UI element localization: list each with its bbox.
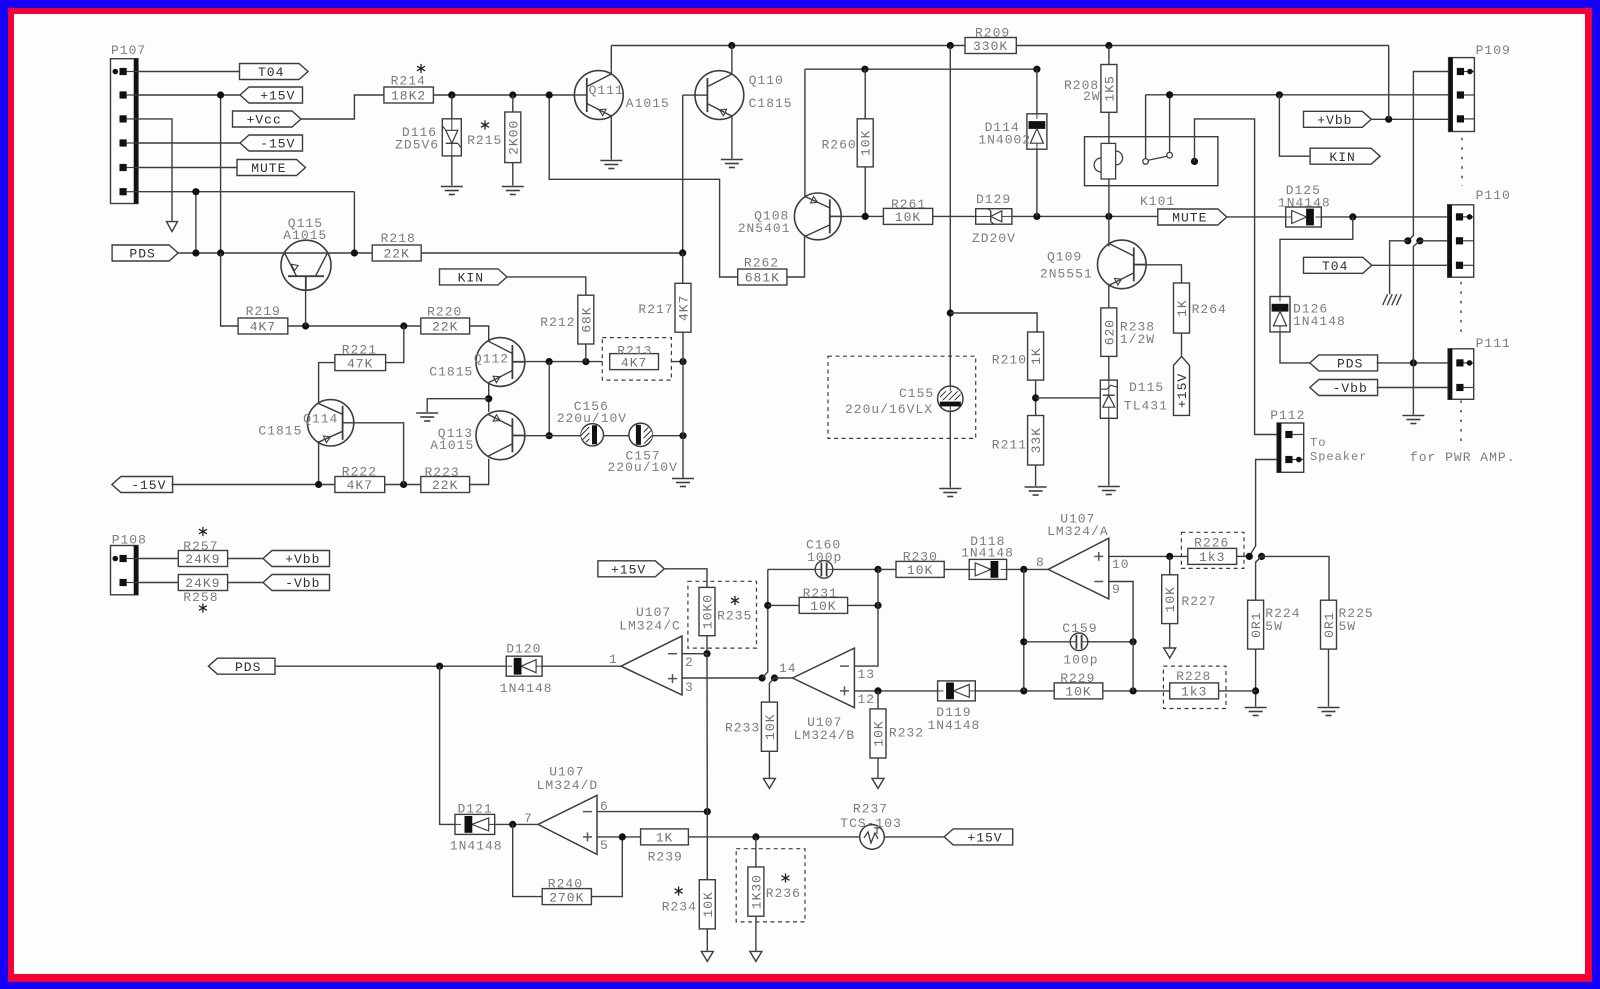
wire R222 to R223 [385,484,421,486]
wire R211 to ground [1035,465,1037,486]
dashed link P111 below [1460,401,1462,449]
capacitor C160 100p [768,568,815,570]
wire C156 to C157 [604,435,629,437]
wire +Vcc flag to R214 [301,95,384,119]
svg-text:+Vbb: +Vbb [285,552,320,567]
wire Q112 base rail y361.6 [512,361,610,363]
svg-text:24K9: 24K9 [185,552,220,567]
dashed box R226 [1181,532,1244,568]
resistor R209 330K [965,38,1016,54]
wire -15V rail to R222 [172,484,335,486]
resistor R220 [421,318,470,334]
flag PDS top-left [112,245,178,261]
node Q114 base drop junction [400,481,407,488]
svg-text:2: 2 [685,655,694,670]
wire R217 to R213 node [682,332,684,361]
wire R225 to ground [1328,649,1330,706]
svg-text:1N4148: 1N4148 [928,718,981,733]
flag +15V mid [598,561,664,577]
svg-text:R228: R228 [1176,669,1211,684]
capacitor C155 220u/16VLX [938,386,963,411]
svg-text:R240: R240 [548,877,583,892]
wire R258 to -Vbb flag [228,582,263,584]
svg-text:+15V: +15V [967,831,1002,846]
opamp U107 LM324/A [1048,538,1109,599]
wire R235 to pin2 node [706,636,708,654]
dashed link P110-P111 [1460,282,1462,335]
svg-text:KIN: KIN [458,271,484,286]
svg-text:68K: 68K [579,306,594,332]
svg-text:R235: R235 [717,609,752,624]
resistor R218 [372,245,421,261]
wire Q111 feedback to R262 [549,95,738,277]
svg-text:R215: R215 [467,133,502,148]
wire thermistor to +15V flag [884,836,944,838]
svg-text:R212: R212 [540,315,575,330]
svg-text:C1815: C1815 [429,365,473,380]
wire PDS branch down to D121 [440,666,455,824]
resistor R260 10K [864,69,866,119]
wire opamp C pin3 rail [682,677,762,679]
node C159 left [1020,638,1027,645]
svg-text:D115: D115 [1129,380,1164,395]
resistor R239 1K [641,829,689,845]
svg-text:TCS-103: TCS-103 [840,816,902,831]
wire R213 right to R217 bottom [659,361,684,363]
wire P107 pin3 down to supply arrow [138,119,172,222]
node R231 left junction [764,602,771,609]
svg-text:P111: P111 [1476,336,1511,351]
svg-text:1N4148: 1N4148 [1293,314,1346,329]
svg-text:220u/10V: 220u/10V [608,460,678,475]
wire R212 bottom [585,344,587,362]
svg-text:P112: P112 [1270,408,1305,423]
svg-text:R217: R217 [638,302,673,317]
svg-text:2K00: 2K00 [506,120,521,155]
flag T04 [240,64,309,80]
wire D118 column [1023,569,1025,691]
svg-text:ZD5V6: ZD5V6 [395,138,439,153]
svg-text:7: 7 [524,811,533,826]
resistor R214 [384,87,434,103]
svg-text:C155: C155 [899,386,934,401]
wire coil to Q109 collector [1108,179,1110,216]
svg-text:D129: D129 [976,192,1011,207]
wire +15V rail down [220,95,222,253]
node pin5 junction [619,833,626,840]
svg-text:14: 14 [779,661,797,676]
wire pin2 node column down [706,654,708,812]
node D114 top [1033,66,1040,73]
dashed box R228 [1163,666,1226,708]
relay rail y94.8 [1146,94,1449,96]
svg-text:1N4148: 1N4148 [961,545,1014,560]
wire P107 pin4 to -15V flag [138,142,240,144]
wire R239 to thermistor [688,836,859,838]
node R220 left junction [400,322,407,329]
svg-text:Q110: Q110 [749,73,784,88]
svg-text:PDS: PDS [235,660,261,675]
diode D125 1N4148 [1286,207,1322,227]
wire T04 to P110 pin3 [1371,264,1447,266]
resistor R262 681K [738,269,787,285]
resistor R217 4K7 [675,283,691,332]
wire R240 to pin5 node [591,837,622,897]
svg-text:Q114: Q114 [303,412,338,427]
svg-text:8: 8 [1036,555,1045,570]
wire P107 pin1 to T04 [138,71,240,73]
wire pin6 right drop to base rail [353,192,355,253]
svg-text:C1815: C1815 [258,424,302,439]
wire R226 to switch node [1237,555,1250,557]
wire D115 to ground [1108,418,1110,485]
wire D125 to P110 pin1 [1321,216,1447,218]
opamp U107 LM324/B [793,648,855,708]
wire jog down to R224 [1256,556,1262,600]
svg-text:R214: R214 [391,74,426,89]
resistor R211 33K [1028,416,1044,466]
svg-text:+15V: +15V [1175,373,1190,408]
wire x683 column to ground [682,362,684,436]
svg-text:R211: R211 [992,438,1027,453]
node Q114 emitter junction [315,481,322,488]
svg-text:Q112: Q112 [474,352,509,367]
dashed box R235 [688,581,757,648]
wire P108 pin2 to R258 [138,582,178,584]
wire Q114 emitter down [318,443,320,485]
flag +Vcc [233,111,302,127]
wire opamp A pin9 feedback [1109,582,1133,691]
wire switch horizontal to chassis [1390,241,1408,294]
wire Q114 base run [343,423,404,485]
svg-text:1N4002: 1N4002 [978,133,1031,148]
svg-text:2N5401: 2N5401 [738,221,791,236]
wire Q108 base to R261 [829,215,883,217]
svg-text:A1015: A1015 [283,228,327,243]
svg-text:+15V: +15V [611,563,646,578]
svg-text:MUTE: MUTE [251,161,286,176]
ground D115 [1098,486,1120,488]
svg-text:R260: R260 [822,138,857,153]
wire PDS node to ground [1412,363,1414,415]
node Q112 base junction [546,358,553,365]
ground R225 [1318,707,1340,709]
svg-text:R222: R222 [342,465,377,480]
flag PDS bottom left [208,658,275,674]
wire pin6 drop to PDS rail [195,192,197,253]
svg-text:A1015: A1015 [430,438,474,453]
flag +Vbb top right [1304,111,1372,127]
svg-text:10K: 10K [895,210,921,225]
node PDS junction [1410,359,1417,366]
flag MUTE right [1158,209,1227,225]
svg-text:D120: D120 [506,642,541,657]
svg-text:1K30: 1K30 [749,874,764,909]
svg-text:5W: 5W [1265,619,1283,634]
arrow R234 [701,951,713,961]
flag +15V vertical [1174,356,1190,415]
svg-text:1k3: 1k3 [1181,685,1207,700]
arrow R236 [750,951,762,961]
node Q113 base junction [546,432,553,439]
wire P109 pin1 switch chain [1408,72,1449,241]
node PDS rail junctions [192,249,199,256]
wire R238 to D115 [1108,356,1110,380]
ground R215 [502,186,524,188]
node C160/R230 junction [874,566,881,573]
node Q110 collector junction [728,42,735,49]
relay NO contact [1191,158,1198,165]
resistor R258 24K9 [178,575,227,591]
node R208 junction [1105,42,1112,49]
svg-text:1/2W: 1/2W [1120,332,1155,347]
node KIN drop [1276,91,1283,98]
resistor R232 10K [877,691,879,709]
resistor R208 1K5 2W [1108,46,1110,65]
svg-text:-15V: -15V [131,478,166,493]
flag T04 right [1304,257,1372,273]
wire R214 to Q111 base [433,94,574,96]
svg-text:12: 12 [858,692,876,707]
transistor Q108 [794,193,841,240]
svg-text:R223: R223 [425,465,460,480]
ground P111 column [1402,415,1424,417]
svg-text:3: 3 [685,680,694,695]
dashed box R236 [736,849,805,922]
svg-text:33K: 33K [1029,427,1044,453]
wire D125 node down to D126 [1280,217,1353,297]
svg-text:R229: R229 [1060,671,1095,686]
top rail y45.5 [611,45,1388,47]
svg-text:R261: R261 [891,197,926,212]
transistor Q110 [695,71,744,120]
wire R228 to R224 bottom [1219,690,1256,692]
connector P108 [111,546,139,595]
transistor Q112 [476,338,525,387]
svg-text:R232: R232 [889,726,924,741]
transistor Q111 [574,71,623,120]
node opamp D pin7 junction [509,821,516,828]
wire KIN flag to R212 [507,277,586,295]
svg-text:LM324/A: LM324/A [1047,524,1109,539]
svg-text:2W: 2W [1083,89,1101,104]
diode D116 zener [451,95,453,119]
wire R220 right to Q112 collector [470,326,489,342]
diode D119 1N4148 [938,681,976,701]
resistor R238 620 [1101,308,1117,357]
resistor R215 2K00 [512,95,514,112]
node R212 bottom junction [582,358,589,365]
node D118 junction [1020,566,1027,573]
resistor R223 [421,477,470,493]
wire R221 left to Q114 collector [319,363,335,403]
svg-text:To: To [1310,436,1326,450]
resistor R236 1K30 [755,837,757,867]
svg-text:10: 10 [1112,557,1130,572]
shunt regulator D115 TL431 [1100,380,1117,418]
svg-text:R209: R209 [975,26,1010,41]
capacitor C156 [581,424,603,446]
connector P107 [111,59,139,204]
wire KIN drop to flag [1279,95,1310,156]
wire Q110 collector [731,46,733,75]
svg-text:R239: R239 [648,850,683,865]
wire P108 pin1 to R257 [138,558,178,560]
svg-text:+15V: +15V [260,89,295,104]
wire Q109 emitter to R238 [1108,284,1110,308]
resistor R233 10K [761,702,777,751]
wire C155 column [949,46,951,488]
svg-text:2N5551: 2N5551 [1040,267,1093,282]
flag -Vbb right [1310,380,1378,396]
wire C160 column [762,569,768,678]
wire R240 feedback loop [513,824,543,896]
svg-text:R234: R234 [662,900,697,915]
svg-text:1N4148: 1N4148 [1278,196,1331,211]
svg-text:R219: R219 [246,304,281,319]
wire D118 to opamp A pin8 [1007,568,1049,570]
wire PDS horizontal rail y253 [178,252,683,254]
node R214 right junction [448,91,455,98]
flag +Vbb left-mid [263,551,330,567]
svg-text:13: 13 [858,667,876,682]
ground x683 column [672,478,694,480]
connector P112 [1277,423,1304,472]
resistor R225 0R1 5W [1321,600,1337,649]
svg-text:P108: P108 [112,533,147,548]
node pin3 jog dots [759,674,766,681]
svg-text:10K: 10K [1065,685,1091,700]
node C155 top tap [947,309,954,316]
resistor R226 1k3 [1188,548,1237,564]
flag KIN left [440,269,508,285]
svg-text:4K7: 4K7 [347,478,373,493]
opamp U107 LM324/D [538,795,597,854]
svg-text:P109: P109 [1476,43,1511,58]
ground Q111 [600,160,622,162]
wire PDS to D120 [275,665,506,667]
second rail y69.2 [805,68,1037,70]
resistor R264 1K [1174,283,1190,333]
node opamp C pin2 junction [703,650,710,657]
wire P107 pin2 to +15V flag [138,94,240,96]
wire P107 pin5 to MUTE flag [138,167,237,169]
flag -15V left [112,477,173,493]
svg-text:1N4148: 1N4148 [500,681,553,696]
svg-text:22K: 22K [383,247,409,262]
wire Q113 base to C156 [512,435,581,437]
resistor R222 [335,477,385,493]
thermistor R237 TCS-103 [860,825,885,850]
svg-text:681K: 681K [745,271,780,286]
wire D119 to R229 [975,690,1054,692]
flag -15V [240,135,303,151]
svg-text:R230: R230 [903,550,938,565]
node +Vbb junction [1385,116,1392,123]
svg-text:R220: R220 [427,305,462,320]
connector P109 [1449,58,1475,132]
svg-text:PDS: PDS [129,247,155,262]
flag -Vbb left-mid [263,575,330,591]
node Q112/Q113 shared [485,395,492,402]
svg-text:ZD20V: ZD20V [972,231,1016,246]
wire R210 to R211 [1035,380,1037,415]
wire D120 to opamp C pin1 [542,665,621,667]
svg-text:1k3: 1k3 [1199,550,1225,565]
svg-text:330K: 330K [973,39,1008,54]
svg-text:47K: 47K [347,356,373,371]
svg-text:PDS: PDS [1337,357,1363,372]
transistor Q114 [307,400,353,446]
resistor R213 in dashed box [602,338,671,381]
node relay contact2 [1166,91,1173,98]
resistor R224 0R1 5W [1248,600,1264,649]
svg-text:+Vbb: +Vbb [1317,113,1352,128]
svg-text:220u/16VLX: 220u/16VLX [845,402,933,417]
svg-text:TL431: TL431 [1124,399,1168,414]
node Q108 base junction [862,213,869,220]
svg-text:R257: R257 [183,539,218,554]
resistor R210 1K [1028,332,1044,380]
svg-text:1K5: 1K5 [1102,75,1117,101]
svg-text:270K: 270K [549,890,584,905]
wire R220-left down to R221 [386,326,404,363]
svg-text:220u/10V: 220u/10V [557,411,627,426]
wire x878 column to pin13 [854,569,878,666]
svg-text:1K: 1K [1029,347,1044,365]
svg-text:MUTE: MUTE [1172,211,1207,226]
diode D114 1N4002 [1036,69,1038,114]
transistor Q113 [476,411,525,460]
wire opamp D pin6 [597,811,707,813]
ground Q110 [721,159,743,161]
svg-text:4K7: 4K7 [677,295,692,321]
flag PDS right [1310,355,1378,371]
node PDS branch [436,663,443,670]
svg-text:P110: P110 [1476,188,1511,203]
node +15V tap [217,91,224,98]
svg-text:LM324/B: LM324/B [794,728,856,743]
svg-text:T04: T04 [258,65,284,80]
resistor R231 10K [768,604,799,606]
svg-text:1K: 1K [656,831,674,846]
chassis ground [1383,294,1388,305]
node x683 PDS rail junction [679,249,686,256]
svg-text:+Vcc: +Vcc [247,113,282,128]
svg-text:P107: P107 [111,43,146,58]
diode D120 1N4148 [506,656,542,676]
svg-text:R227: R227 [1181,594,1216,609]
flag +15V bottom [944,829,1013,845]
diode D126 1N4148 [1270,297,1290,332]
svg-text:100p: 100p [1063,653,1098,668]
wire D126 to PDS flag [1280,332,1310,363]
svg-text:0R1: 0R1 [1322,611,1337,637]
wire opamp C pin2 [682,653,707,655]
flag +15V [240,87,303,103]
wire switch lower [1413,241,1420,363]
resistor R257 24K9 [178,551,227,567]
svg-text:10K: 10K [1163,586,1178,612]
svg-text:10K: 10K [907,563,933,578]
svg-text:1: 1 [609,652,618,667]
wire R219 to R220 rail [288,325,421,327]
wire R223 to Q113 emitter [470,459,489,485]
transistor Q109 [1098,240,1147,289]
wire R264 to +15V up flag [1181,333,1183,356]
svg-text:D121: D121 [458,802,493,817]
node switch dots [1404,237,1411,244]
